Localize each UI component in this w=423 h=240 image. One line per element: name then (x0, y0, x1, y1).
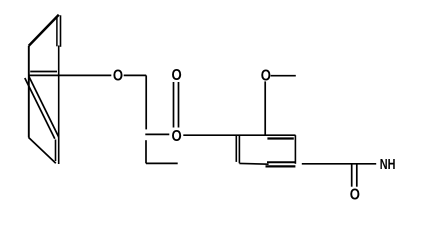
benzene ring (drawn as rectangle) (236, 135, 295, 166)
wire: main descending diagonal bond (29, 76, 59, 137)
wire: CH2 vertical bond down (145, 75, 147, 129)
svg-text:O: O (350, 186, 360, 203)
methoxy group (265, 76, 296, 135)
svg-text:O: O (261, 67, 271, 84)
bicyclic ring system (left) (25, 15, 112, 164)
wire: inner bottom vertical double bond line (55, 140, 57, 162)
wire: left vertical bond (28, 46, 30, 138)
wire: ring bottom edge (239, 162, 268, 165)
wire: top apex diagonal bond (29, 15, 59, 46)
wire: ring bottom double bond pair (267, 161, 295, 163)
wire: twin descending diagonal (double bond) (25, 78, 55, 139)
wire: long right vertical bond (58, 46, 60, 165)
wire: top double bond line left (56, 17, 58, 47)
wire: inner horizontal double bond line (30, 71, 57, 73)
ether linkage chain (124, 75, 296, 163)
wire: bond ring to amide C and C to NH (302, 163, 376, 165)
svg-text:O: O (113, 67, 123, 84)
wire: top double bond line right (60, 15, 62, 47)
wire: bond ether O to CH2 (124, 74, 147, 76)
svg-text:NH: NH (380, 155, 396, 172)
wire: lower-left diagonal bond (29, 137, 56, 163)
wire: bond CH to ester O (145, 133, 169, 135)
wire: ring top inner double bond line (267, 137, 293, 139)
svg-text:O: O (171, 128, 181, 145)
wire: ethyl vertical bond (145, 140, 147, 163)
wire: bond methoxy O to CH3 (271, 75, 296, 77)
wire: main horizontal bond to ether O (29, 74, 112, 76)
svg-text:O: O (171, 67, 181, 84)
wire: ring right edge (294, 135, 296, 164)
wire: bond methoxy O to ring (264, 81, 266, 134)
wire: ethyl horizontal bond (146, 162, 178, 164)
amide group (302, 164, 376, 187)
wire: ester C=O double bond pair (173, 82, 175, 128)
wire: ring left edge double bond pair (235, 136, 237, 162)
wire: bond ester O to ring (183, 134, 295, 136)
wire: amide C=O double bond pair (351, 165, 353, 187)
